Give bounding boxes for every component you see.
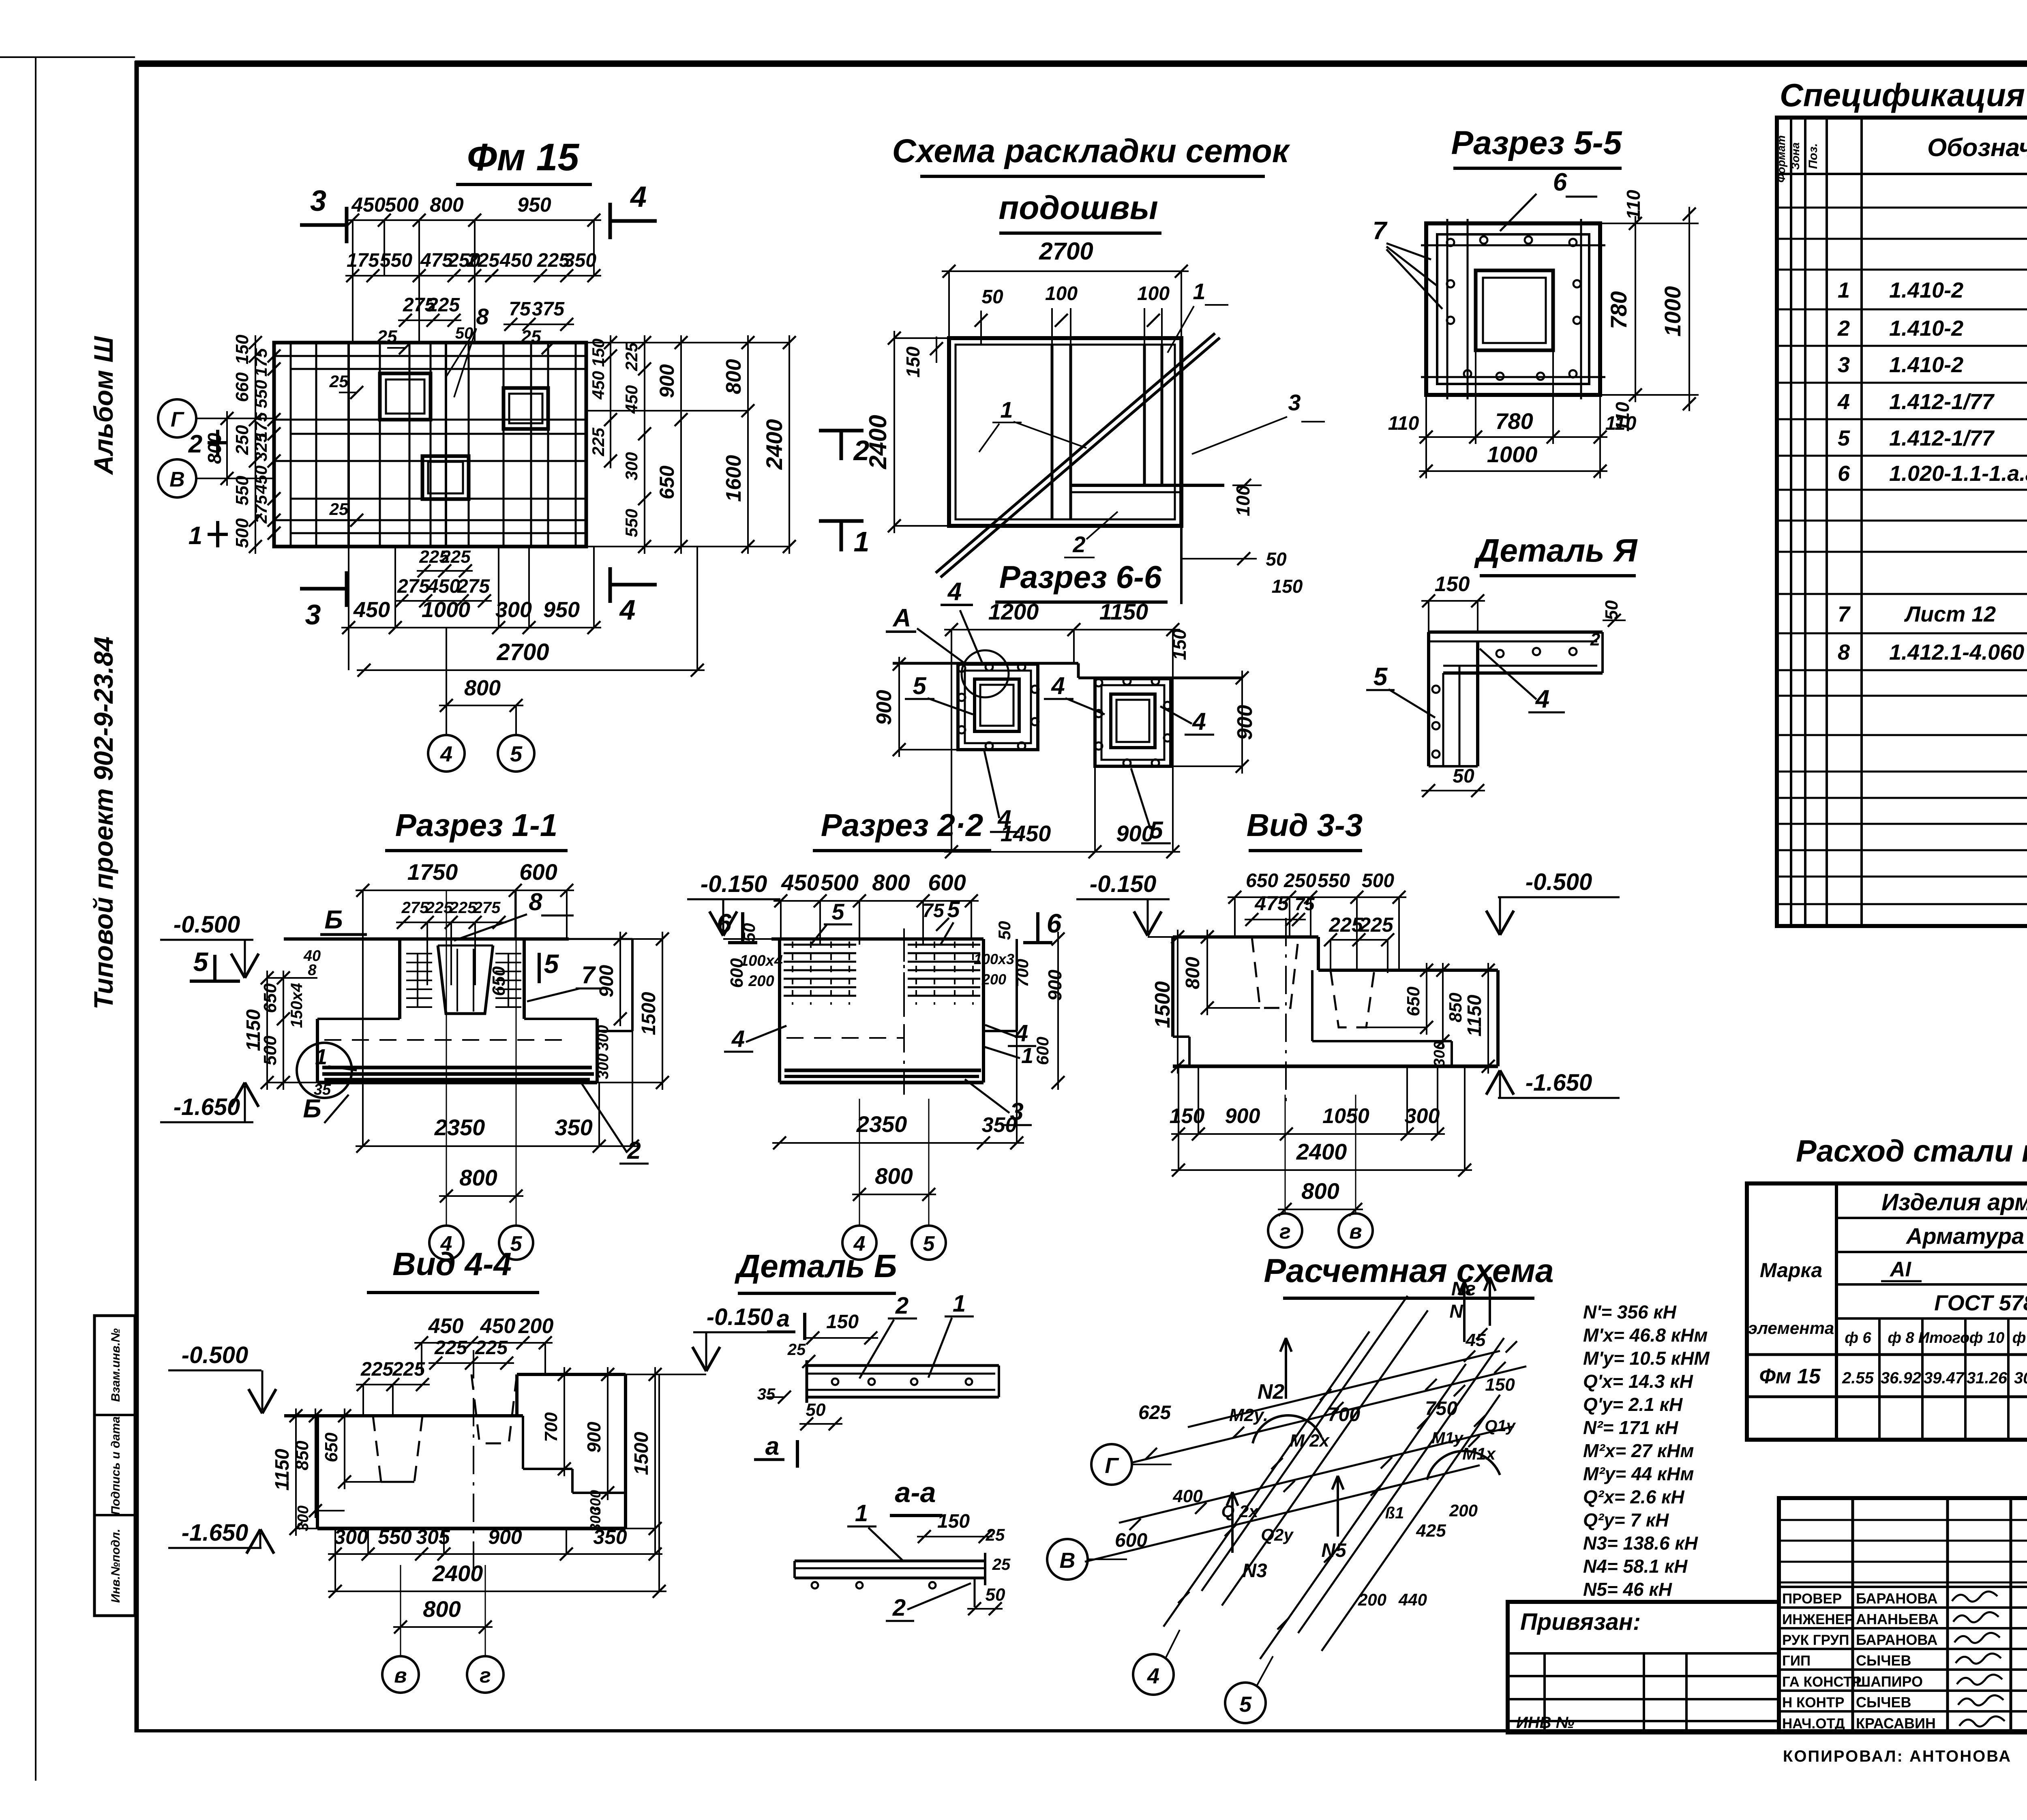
svg-text:50: 50 xyxy=(981,286,1003,308)
axis circle V (plan left) xyxy=(158,459,274,497)
svg-text:150: 150 xyxy=(232,334,252,364)
title: a-a xyxy=(890,1477,943,1516)
svg-text:Фм 15: Фм 15 xyxy=(1759,1365,1821,1388)
svg-text:5: 5 xyxy=(1149,817,1163,844)
svg-text:а: а xyxy=(765,1432,779,1460)
svg-text:Деталь Я: Деталь Я xyxy=(1474,532,1638,568)
svg-text:800: 800 xyxy=(722,359,746,394)
plan bottom dim 800 xyxy=(439,676,523,712)
svg-text:6: 6 xyxy=(717,908,732,938)
svg-text:275: 275 xyxy=(397,576,430,597)
section marks 6 (razrez 2-2) xyxy=(717,908,1062,943)
svg-text:1500: 1500 xyxy=(638,992,660,1035)
svg-text:6: 6 xyxy=(1553,168,1567,196)
svg-text:625: 625 xyxy=(1138,1402,1171,1423)
svg-text:780: 780 xyxy=(1606,291,1631,329)
svg-text:300: 300 xyxy=(295,1505,312,1531)
svg-text:ИНВ №: ИНВ № xyxy=(1516,1714,1575,1732)
svg-text:4: 4 xyxy=(1535,685,1549,713)
razrez 1-1 axis circles 4 5 xyxy=(429,890,533,1260)
plan top dimension chain 175 550 475 250 225 450 225 350 xyxy=(345,250,601,282)
scan paper edge lines xyxy=(0,57,135,1781)
svg-text:БАРАНОВА: БАРАНОВА xyxy=(1856,1631,1938,1648)
vid 3-3 dim 800 xyxy=(1278,1178,1363,1216)
calc scheme axis circles G V 4 5 xyxy=(1047,1444,1273,1723)
svg-text:36.92: 36.92 xyxy=(1881,1369,1921,1387)
svg-text:2: 2 xyxy=(1072,532,1085,557)
specification rows content xyxy=(1837,178,2027,766)
razrez 6-6 right dim 900 xyxy=(1171,671,1257,774)
title: Razrez 6-6 xyxy=(995,559,1168,602)
svg-text:3: 3 xyxy=(1288,390,1301,415)
svg-text:ф 10: ф 10 xyxy=(1969,1329,2004,1346)
vid 3-3 dims 475 75 xyxy=(1245,892,1315,926)
svg-text:N5: N5 xyxy=(1321,1540,1347,1561)
svg-text:225: 225 xyxy=(392,1359,425,1380)
svg-text:50: 50 xyxy=(986,1585,1005,1605)
vid 3-3 body xyxy=(1173,918,1498,1108)
svg-text:N: N xyxy=(1449,1301,1463,1322)
svg-text:50: 50 xyxy=(806,1400,826,1420)
svg-text:550: 550 xyxy=(380,250,412,271)
svg-text:4: 4 xyxy=(731,1026,745,1052)
svg-text:5: 5 xyxy=(923,1232,935,1256)
svg-text:1150: 1150 xyxy=(1464,995,1485,1037)
svg-text:1: 1 xyxy=(855,1500,868,1526)
title: Razrez 2-2 xyxy=(813,807,991,851)
svg-text:225: 225 xyxy=(449,899,477,917)
svg-text:400: 400 xyxy=(1172,1486,1203,1506)
svg-text:350: 350 xyxy=(593,1526,627,1548)
svg-text:300: 300 xyxy=(334,1526,368,1548)
svg-text:4: 4 xyxy=(1192,708,1206,735)
svg-text:275: 275 xyxy=(473,899,501,917)
svg-text:Q²х= 2.6 кН: Q²х= 2.6 кН xyxy=(1583,1486,1684,1507)
section mark 1 (right) xyxy=(819,521,869,557)
svg-text:1200: 1200 xyxy=(988,599,1039,624)
razrez 5-5 outer square xyxy=(1426,223,1600,395)
title: Schema raskladki setok podoshvy xyxy=(892,133,1290,233)
vid 3-3 dims 225 225 xyxy=(1324,913,1394,973)
svg-text:275: 275 xyxy=(457,576,490,597)
svg-text:4: 4 xyxy=(1051,672,1065,699)
svg-text:110: 110 xyxy=(1623,190,1644,220)
mesh layout rectangle xyxy=(949,338,1224,604)
elevation -0.500 (vid 3-3 right) xyxy=(1486,869,1620,935)
svg-text:650: 650 xyxy=(489,966,509,996)
svg-text:М²х= 27 кНм: М²х= 27 кНм xyxy=(1583,1440,1694,1461)
svg-text:100х3: 100х3 xyxy=(974,951,1014,967)
svg-text:5: 5 xyxy=(1239,1692,1252,1717)
razrez 2-2 labels 5 75 xyxy=(811,896,960,945)
svg-text:800: 800 xyxy=(464,676,501,700)
svg-text:325: 325 xyxy=(251,433,270,461)
vid 3-3 bottom dim chain 150 900 1050 300 xyxy=(1170,1066,1445,1170)
calc scheme dimension ticks and numbers xyxy=(1115,1278,1516,1609)
svg-text:5: 5 xyxy=(913,672,927,699)
svg-text:700: 700 xyxy=(1013,959,1032,987)
svg-text:2.55: 2.55 xyxy=(1842,1369,1874,1387)
svg-text:Лист 12: Лист 12 xyxy=(1904,602,1996,626)
calc scheme axis lines xyxy=(1085,1296,1526,1659)
svg-text:25: 25 xyxy=(986,1525,1005,1544)
svg-text:N2: N2 xyxy=(1258,1380,1285,1404)
svg-text:800: 800 xyxy=(430,193,464,216)
plan pocket square 3 xyxy=(422,456,469,499)
mesh layout right dims 100 50 150 xyxy=(1181,479,1303,597)
svg-text:500: 500 xyxy=(232,518,252,548)
plan small dims 275 225 / 8 / 75 375 / 25 xyxy=(377,294,574,397)
svg-text:25: 25 xyxy=(329,372,349,391)
razrez 5-5 right dims 780 1000 110 xyxy=(1426,190,1699,432)
vid 4-4 axis circles v g xyxy=(382,1565,504,1693)
svg-text:225: 225 xyxy=(1328,913,1363,936)
svg-text:7: 7 xyxy=(581,961,596,988)
svg-text:150: 150 xyxy=(1272,576,1303,597)
razrez 1-1 dim 800 xyxy=(439,1165,523,1203)
mesh layout dim 2700 (top) xyxy=(942,238,1189,338)
svg-text:2350: 2350 xyxy=(434,1115,485,1140)
svg-text:110: 110 xyxy=(1388,413,1419,434)
svg-text:КОПИРОВАЛ: АНТОНОВА: КОПИРОВАЛ: АНТОНОВА xyxy=(1783,1747,2012,1765)
svg-text:900: 900 xyxy=(872,690,896,725)
svg-text:450: 450 xyxy=(353,598,390,622)
svg-text:2: 2 xyxy=(1837,316,1850,341)
plan axis circle 4 xyxy=(428,628,465,772)
privyazan box xyxy=(1508,1602,1779,1732)
svg-text:Q2у: Q2у xyxy=(1261,1525,1294,1545)
svg-text:225: 225 xyxy=(425,899,453,917)
svg-text:550: 550 xyxy=(232,476,252,506)
title: Vid 3-3 xyxy=(1247,807,1363,851)
razrez 2-2 small texts 100x4 200 xyxy=(727,932,1065,1090)
svg-text:550: 550 xyxy=(251,380,270,408)
svg-text:1150: 1150 xyxy=(1099,599,1148,624)
svg-text:850: 850 xyxy=(292,1441,312,1471)
svg-text:800: 800 xyxy=(1182,957,1204,989)
plan left section mark 2 xyxy=(188,430,228,458)
label 7 leader xyxy=(527,961,604,1001)
svg-text:г: г xyxy=(1279,1220,1291,1243)
svg-text:4: 4 xyxy=(997,805,1011,832)
svg-text:850: 850 xyxy=(1446,993,1466,1023)
svg-text:800: 800 xyxy=(872,870,910,895)
plan pocket square 1 xyxy=(380,373,431,420)
svg-text:660: 660 xyxy=(232,372,252,402)
svg-text:Q'х= 14.3 кН: Q'х= 14.3 кН xyxy=(1583,1371,1693,1392)
vid 4-4 left dims 1150 850 650 300 xyxy=(272,1408,381,1536)
svg-text:г: г xyxy=(480,1664,491,1687)
vid 3-3 vertical dims 1500 800 xyxy=(1151,930,1260,1074)
title: Detal Ya xyxy=(1474,532,1638,576)
razrez 2-2 top dims 450 500 800 600 xyxy=(774,870,979,945)
title: Raschetnaya skhema xyxy=(1264,1252,1553,1298)
plan bottom small dims 225 225 / 275 450 275 xyxy=(394,547,492,607)
svg-text:АІ: АІ xyxy=(1889,1258,1912,1281)
razrez 5-5 inner well xyxy=(1476,270,1553,350)
svg-text:450: 450 xyxy=(351,193,386,216)
svg-text:Поз.: Поз. xyxy=(1806,143,1820,169)
specification table grid xyxy=(1777,118,2027,926)
svg-text:900: 900 xyxy=(1233,705,1257,740)
detal Ya corner section xyxy=(1429,632,1603,766)
svg-text:-1.650: -1.650 xyxy=(1526,1070,1592,1096)
svg-text:225: 225 xyxy=(475,1337,508,1359)
vid 3-3 top dims 650 250 550 500 xyxy=(1228,870,1406,970)
svg-text:305: 305 xyxy=(416,1526,450,1548)
svg-text:900: 900 xyxy=(583,1421,604,1453)
svg-text:75: 75 xyxy=(922,900,945,922)
section mark 5 left xyxy=(190,947,240,981)
vid 3-3 dim 2400 xyxy=(1171,1066,1472,1177)
plan axis circle 5 xyxy=(498,705,534,772)
svg-text:1: 1 xyxy=(1021,1044,1033,1068)
svg-text:1.412.1-4.060: 1.412.1-4.060 xyxy=(1889,640,2024,665)
svg-text:450: 450 xyxy=(589,371,608,400)
svg-text:Расчетная схема: Расчетная схема xyxy=(1264,1252,1553,1289)
mesh layout small top dims 50 100 100 1 xyxy=(975,279,1228,353)
svg-text:300: 300 xyxy=(595,1025,612,1050)
svg-text:5: 5 xyxy=(1373,663,1388,691)
svg-text:в: в xyxy=(1349,1220,1362,1243)
svg-text:200: 200 xyxy=(518,1314,554,1338)
title: Razrez 5-5 xyxy=(1451,124,1622,168)
svg-text:-1.650: -1.650 xyxy=(174,1094,240,1120)
elevation -1.650 left xyxy=(160,1083,259,1122)
svg-text:800: 800 xyxy=(1301,1178,1339,1204)
svg-text:ШАПИРО: ШАПИРО xyxy=(1856,1673,1923,1690)
mesh labels 1 3 2 xyxy=(979,302,1325,557)
svg-text:8: 8 xyxy=(308,962,317,979)
svg-text:100: 100 xyxy=(1232,485,1253,516)
svg-text:2400: 2400 xyxy=(864,415,891,469)
svg-text:6: 6 xyxy=(1838,461,1850,486)
svg-text:Q'у= 2.1 кН: Q'у= 2.1 кН xyxy=(1583,1394,1683,1415)
svg-text:440: 440 xyxy=(1398,1590,1427,1609)
title: Razrez 1-1 xyxy=(385,807,568,851)
svg-text:500: 500 xyxy=(1362,870,1394,892)
razrez 5-5 bottom dims 110 780 110 / 1000 xyxy=(1388,350,1637,478)
svg-text:150х4: 150х4 xyxy=(288,983,306,1028)
section mark 3 (bottom) xyxy=(300,571,347,630)
svg-text:2350: 2350 xyxy=(856,1111,907,1137)
svg-text:1500: 1500 xyxy=(631,1432,652,1475)
svg-text:700: 700 xyxy=(1328,1404,1360,1426)
razrez 2-2 bottom dims 2350 350 800 xyxy=(772,1031,1024,1201)
svg-text:25: 25 xyxy=(329,499,349,519)
svg-text:550: 550 xyxy=(622,509,641,537)
svg-text:350: 350 xyxy=(564,250,596,271)
svg-text:800: 800 xyxy=(459,1165,497,1190)
detal Ya labels 5 4 2 50 xyxy=(1366,600,1626,797)
svg-text:225: 225 xyxy=(467,250,500,271)
svg-text:ГИП: ГИП xyxy=(1782,1653,1811,1669)
svg-text:150: 150 xyxy=(902,346,924,377)
svg-text:4: 4 xyxy=(1147,1664,1159,1688)
svg-text:150: 150 xyxy=(1435,572,1470,596)
svg-text:450: 450 xyxy=(480,1314,516,1338)
svg-text:Б: Б xyxy=(303,1094,321,1123)
vertical text: Album III xyxy=(88,336,118,475)
svg-text:800: 800 xyxy=(423,1596,461,1622)
svg-text:425: 425 xyxy=(1416,1521,1446,1541)
svg-text:6: 6 xyxy=(1047,908,1062,938)
svg-text:450: 450 xyxy=(781,870,819,895)
svg-text:250: 250 xyxy=(1283,870,1316,892)
svg-text:ф 6: ф 6 xyxy=(1845,1329,1871,1346)
svg-text:5: 5 xyxy=(544,949,559,979)
razrez 2-2 body xyxy=(771,928,1017,1095)
svg-text:600: 600 xyxy=(519,859,557,885)
section mark 3 (top) xyxy=(300,185,347,243)
svg-text:2: 2 xyxy=(895,1293,909,1319)
svg-text:450: 450 xyxy=(427,576,460,597)
svg-text:М 2х: М 2х xyxy=(1290,1431,1330,1451)
svg-text:350: 350 xyxy=(982,1113,1017,1137)
svg-text:-0.150: -0.150 xyxy=(707,1304,773,1330)
svg-text:600: 600 xyxy=(1115,1530,1147,1551)
svg-text:5: 5 xyxy=(510,1232,523,1256)
section mark 4 (top) xyxy=(610,181,657,239)
svg-text:25: 25 xyxy=(992,1556,1011,1573)
specification table header texts xyxy=(1775,126,2027,182)
svg-text:900: 900 xyxy=(1225,1104,1260,1128)
svg-text:275: 275 xyxy=(251,495,270,524)
razrez 1-1 right dim chains xyxy=(489,932,669,1090)
svg-text:225: 225 xyxy=(427,294,460,316)
svg-text:1050: 1050 xyxy=(1322,1104,1369,1128)
svg-text:2400: 2400 xyxy=(761,419,787,470)
svg-text:650: 650 xyxy=(260,983,280,1013)
svg-text:4: 4 xyxy=(1837,390,1850,414)
svg-text:750: 750 xyxy=(1425,1398,1457,1419)
svg-text:3: 3 xyxy=(1838,353,1850,377)
plan pocket square 2 xyxy=(504,388,548,429)
svg-text:Г: Г xyxy=(1105,1453,1119,1478)
svg-text:225: 225 xyxy=(440,547,471,567)
svg-text:150: 150 xyxy=(1485,1375,1515,1395)
elevation -0.150 (razrez 2-2) xyxy=(687,871,780,939)
mesh diagonal bar xyxy=(936,333,1220,577)
svg-text:650: 650 xyxy=(1246,870,1278,892)
svg-text:450: 450 xyxy=(251,465,270,494)
razrez 2-2 labels 4 1 3 xyxy=(724,1020,1036,1125)
svg-text:3: 3 xyxy=(310,185,326,217)
svg-text:900: 900 xyxy=(596,965,617,997)
svg-text:Б: Б xyxy=(324,905,343,934)
svg-text:225: 225 xyxy=(360,1359,394,1380)
svg-text:КРАСАВИН: КРАСАВИН xyxy=(1856,1715,1936,1732)
svg-text:35: 35 xyxy=(757,1385,776,1403)
svg-text:1600: 1600 xyxy=(722,455,746,502)
calc scheme dimension tick marks xyxy=(1129,1328,1517,1629)
svg-text:450: 450 xyxy=(622,385,641,414)
label 7 with leaders xyxy=(1373,217,1442,309)
svg-text:1000: 1000 xyxy=(1487,442,1538,467)
svg-text:650: 650 xyxy=(656,465,678,499)
vid 3-3 axis circles g v xyxy=(1268,1095,1373,1248)
svg-text:175: 175 xyxy=(347,250,379,271)
svg-text:1750: 1750 xyxy=(407,859,458,885)
plan top dimension chain 450 500 800 950 xyxy=(345,193,601,343)
svg-text:Зона: Зона xyxy=(1789,142,1802,170)
svg-text:1.410-2: 1.410-2 xyxy=(1889,353,1963,377)
svg-text:450: 450 xyxy=(428,1314,464,1338)
elevation -0.150 (vid 4-4) xyxy=(626,1304,786,1374)
svg-text:7: 7 xyxy=(1373,217,1388,245)
svg-text:200: 200 xyxy=(1358,1590,1386,1609)
svg-text:ß1: ß1 xyxy=(1385,1504,1404,1522)
svg-text:М²у= 44 кНм: М²у= 44 кНм xyxy=(1583,1463,1694,1484)
svg-text:N5= 46 кН: N5= 46 кН xyxy=(1583,1579,1672,1600)
svg-text:ПРОВЕР: ПРОВЕР xyxy=(1782,1591,1842,1607)
svg-text:50: 50 xyxy=(1266,549,1287,570)
plan right dimension chains xyxy=(586,335,796,554)
svg-text:8: 8 xyxy=(1838,640,1850,665)
razrez 6-6 top dims 1200 1150 xyxy=(944,599,1190,852)
svg-text:Типовой проект 902-9-23.84: Типовой проект 902-9-23.84 xyxy=(88,637,118,1010)
svg-text:1: 1 xyxy=(953,1291,966,1317)
label B top xyxy=(320,905,367,935)
vid 4-4 dims 225 225 (left pair) xyxy=(356,1359,430,1416)
svg-text:550: 550 xyxy=(378,1526,412,1548)
svg-text:М'х= 46.8 кНм: М'х= 46.8 кНм xyxy=(1583,1325,1708,1346)
svg-text:2: 2 xyxy=(188,430,202,458)
svg-text:5: 5 xyxy=(1838,426,1850,450)
svg-text:N'= 356 кН: N'= 356 кН xyxy=(1583,1301,1677,1323)
svg-text:-0.500: -0.500 xyxy=(182,1342,248,1368)
razrez 2-2 axis circles 4 5 xyxy=(842,1099,946,1260)
elevation -1.650 (vid 3-3 right) xyxy=(1486,1070,1620,1098)
razrez 1-1 top dims 1750 600 xyxy=(356,859,574,1146)
plan left section mark 1 xyxy=(189,521,228,550)
svg-text:150: 150 xyxy=(937,1511,970,1532)
svg-text:250: 250 xyxy=(232,425,252,455)
bottom margin texts xyxy=(1783,1746,2027,1768)
label 8 leader xyxy=(454,888,574,941)
svg-text:800: 800 xyxy=(204,433,225,464)
steel table grid xyxy=(1747,1183,2027,1440)
svg-text:110: 110 xyxy=(1605,413,1637,434)
svg-text:31.26: 31.26 xyxy=(1967,1369,2008,1387)
section mark 2 (right) xyxy=(819,431,870,466)
svg-text:50: 50 xyxy=(455,324,474,342)
svg-text:Н КОНТР: Н КОНТР xyxy=(1782,1695,1845,1711)
svg-text:350: 350 xyxy=(555,1115,592,1140)
label 1 leader xyxy=(315,1045,357,1070)
svg-text:450: 450 xyxy=(499,250,532,271)
svg-text:300: 300 xyxy=(1431,1041,1448,1067)
svg-text:25: 25 xyxy=(787,1341,806,1359)
svg-text:75: 75 xyxy=(509,298,531,320)
svg-text:Разрез 5-5: Разрез 5-5 xyxy=(1451,124,1622,161)
svg-text:200: 200 xyxy=(748,973,774,990)
svg-text:М'у= 10.5 кНМ: М'у= 10.5 кНМ xyxy=(1583,1348,1710,1369)
svg-text:150: 150 xyxy=(1169,629,1190,660)
razrez 6-6 labels 5 4 xyxy=(905,672,1214,844)
svg-text:-0.150: -0.150 xyxy=(701,871,767,897)
svg-text:900: 900 xyxy=(488,1526,522,1548)
svg-text:Спецификация монолитного фунда: Спецификация монолитного фундамента Фм 1… xyxy=(1780,77,2027,113)
svg-text:2: 2 xyxy=(892,1595,906,1621)
N M Q values list xyxy=(1583,1301,1710,1600)
svg-text:225: 225 xyxy=(622,342,641,371)
svg-text:ИНЖЕНЕР: ИНЖЕНЕР xyxy=(1782,1612,1854,1627)
svg-text:В: В xyxy=(1060,1548,1076,1573)
svg-text:225: 225 xyxy=(434,1337,467,1359)
svg-text:Фм 15: Фм 15 xyxy=(467,136,580,179)
svg-text:1.020-1.1-1.а.а.1.0-07: 1.020-1.1-1.а.а.1.0-07 xyxy=(1889,461,2027,486)
